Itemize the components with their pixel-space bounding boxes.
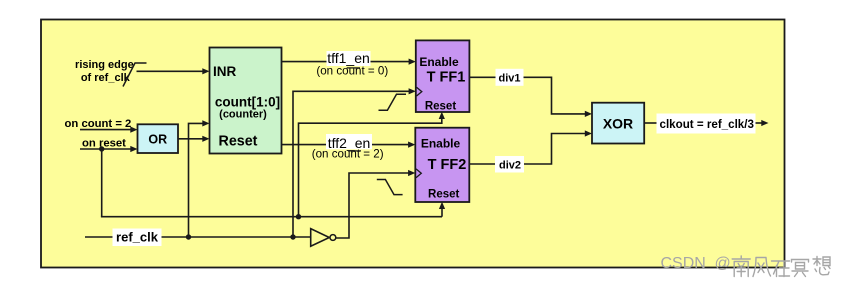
- svg-text:Reset: Reset: [425, 101, 456, 113]
- label: INR: [213, 64, 237, 79]
- wire: div2 from T FF2 to XOR: [469, 130, 592, 164]
- label: Enable (T FF2): [421, 137, 461, 151]
- svg-text:div2: div2: [499, 160, 521, 172]
- clock chevron T FF2: [416, 169, 421, 178]
- T FF1 block: [416, 40, 470, 112]
- svg-text:ref_clk: ref_clk: [116, 229, 159, 244]
- svg-text:(on count = 0): (on count = 0): [316, 65, 388, 78]
- watermark glyph xiang: [813, 257, 830, 275]
- wire: rising edge input to INR: [137, 68, 210, 74]
- node: ref_clk junction 1: [186, 234, 191, 239]
- svg-text:Reset: Reset: [428, 189, 459, 201]
- label: (counter): [219, 109, 267, 121]
- svg-text:Enable: Enable: [421, 137, 461, 151]
- label: (on count = 2): [312, 148, 384, 161]
- label: div1 (with halo): [496, 69, 524, 86]
- svg-text:CSDN: CSDN: [661, 255, 706, 272]
- falling edge symbol at T FF2 clock: [377, 180, 403, 195]
- watermark glyph feng: [753, 258, 771, 277]
- label: on reset: [82, 138, 126, 150]
- node: junction on reset line: [99, 146, 104, 151]
- label: div2 (with halo): [495, 156, 524, 173]
- svg-text:(on count = 2): (on count = 2): [312, 148, 384, 161]
- svg-text:of ref_clk: of ref_clk: [81, 72, 131, 84]
- rising edge symbol at input label: [123, 63, 147, 87]
- svg-text:(counter): (counter): [219, 109, 267, 121]
- watermark glyph nan: [732, 256, 750, 277]
- label: on count = 2: [65, 118, 132, 130]
- svg-text:Reset: Reset: [219, 134, 258, 150]
- label: rising edge: [75, 59, 134, 71]
- label: clkout = ref_clk/3 (with halo): [657, 114, 756, 134]
- label: ref_clk (with halo): [113, 229, 162, 247]
- wire: tff1_en from counter to T FF1 Enable: [282, 59, 416, 65]
- wire: on reset into OR: [80, 146, 138, 152]
- wire: div1 from T FF1 to XOR: [469, 77, 592, 117]
- wire: on count = 2 into OR: [80, 127, 138, 133]
- label: T FF2: [428, 157, 467, 173]
- inverter (NOT gate) on ref_clk: [311, 229, 336, 247]
- svg-text:XOR: XOR: [603, 115, 633, 131]
- svg-text:count[1:0]: count[1:0]: [215, 95, 280, 110]
- svg-text:INR: INR: [213, 64, 237, 79]
- clock chevron T FF1: [417, 87, 422, 96]
- label: tff1_en (with halo): [327, 50, 371, 66]
- label: of ref_clk: [81, 72, 131, 84]
- watermark CSDN text: [661, 255, 731, 272]
- wire: ref_clk riser into counter clock: [189, 120, 210, 237]
- XOR gate block: [592, 103, 644, 144]
- OR gate block: [138, 124, 179, 153]
- rising edge symbol at T FF1 clock: [379, 94, 407, 110]
- wire: reset branch up to T FF1: [299, 112, 445, 217]
- diagram background panel: [41, 20, 785, 268]
- wire: OR output to counter Reset: [178, 136, 210, 142]
- wire: reset long horizontal run: [101, 216, 442, 218]
- node: junction reset run to TFF1 branch: [296, 214, 301, 219]
- label: Reset (T FF2): [428, 189, 459, 201]
- svg-text:Enable: Enable: [419, 55, 459, 69]
- svg-text:rising edge: rising edge: [75, 59, 134, 71]
- svg-text:div1: div1: [498, 73, 520, 85]
- node: ref_clk junction 2: [290, 234, 295, 239]
- label: Enable (T FF1): [419, 55, 459, 69]
- svg-text:T FF1: T FF1: [427, 70, 466, 86]
- label: tff2_en (with halo): [326, 134, 372, 151]
- wire: inverter output up to T FF2 clock: [336, 170, 416, 238]
- watermark glyph ming: [792, 260, 809, 277]
- svg-text:OR: OR: [148, 133, 167, 147]
- label: count[1:0]: [215, 95, 280, 110]
- label: T FF1: [427, 70, 466, 86]
- wire: clkout output: [644, 120, 768, 126]
- svg-text:@: @: [715, 255, 731, 272]
- label: (on count = 0): [316, 65, 388, 78]
- watermark glyph zai: [772, 261, 790, 277]
- wire: ref_clk main line: [85, 236, 311, 238]
- counter block count[1:0]: [210, 48, 282, 154]
- wire: ref_clk riser to T FF1 clock: [293, 88, 416, 237]
- label: Reset (counter): [219, 134, 258, 150]
- T FF2 block: [415, 128, 469, 202]
- wire: reset branch up to T FF2: [439, 202, 445, 217]
- svg-text:on count = 2: on count = 2: [65, 118, 132, 130]
- wire: tff2_en from counter to T FF2 Enable: [282, 142, 416, 148]
- wire: reset vertical drop: [101, 149, 103, 217]
- svg-text:T FF2: T FF2: [428, 157, 467, 173]
- label: Reset (T FF1): [425, 101, 456, 113]
- label: XOR: [603, 115, 633, 131]
- svg-text:clkout = ref_clk/3: clkout = ref_clk/3: [660, 118, 755, 131]
- label: OR: [148, 133, 167, 147]
